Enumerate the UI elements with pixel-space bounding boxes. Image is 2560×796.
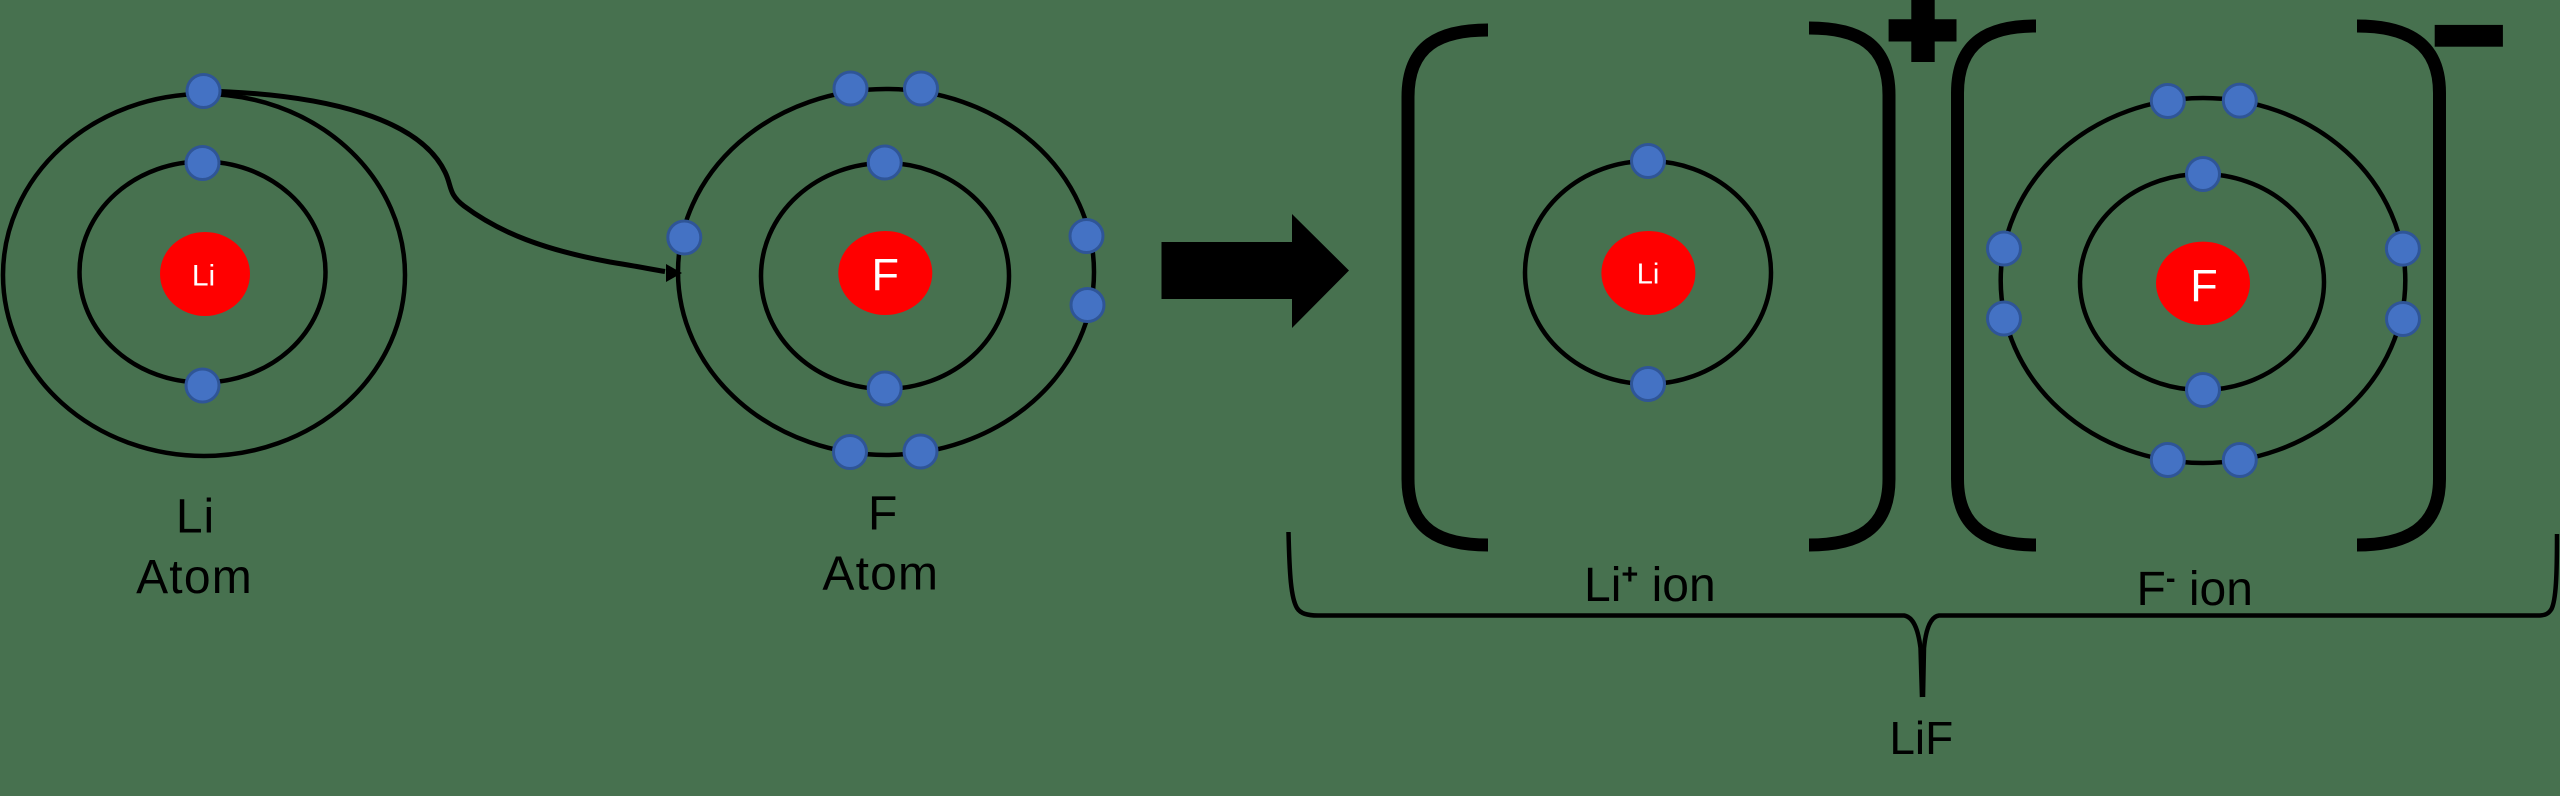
Li electron outer top xyxy=(187,75,220,108)
Li+ nucleus xyxy=(1601,231,1695,315)
F- electron outer bottom-left xyxy=(2151,444,2184,477)
F- electron inner bottom xyxy=(2187,374,2220,407)
svg-text:Li: Li xyxy=(176,491,215,544)
F- electron outer top-right xyxy=(2223,84,2256,117)
F nucleus xyxy=(838,231,932,315)
LiF underbrace xyxy=(1289,532,1923,697)
F electron outer bottom-left xyxy=(834,436,867,469)
F electron outer right-upper xyxy=(1070,220,1103,253)
F electron inner top xyxy=(868,146,901,179)
F- electron outer right-upper xyxy=(2386,232,2419,265)
svg-text:F: F xyxy=(2190,260,2218,311)
F- electron outer right-lower xyxy=(2387,303,2420,336)
Li+ electron top xyxy=(1632,145,1665,178)
Li+ electron bottom xyxy=(1632,368,1665,401)
svg-text:F- ion: F- ion xyxy=(2137,563,2253,616)
plus charge symbol xyxy=(1889,0,1957,62)
F- nucleus xyxy=(2156,242,2250,325)
Li electron inner bottom xyxy=(186,369,219,402)
svg-text:Li: Li xyxy=(1637,258,1660,290)
Li atom inner shell xyxy=(80,162,326,383)
svg-text:Li: Li xyxy=(192,260,215,293)
F- ion right bracket xyxy=(2357,26,2440,545)
F electron outer bottom-right xyxy=(904,435,937,468)
svg-text:Atom: Atom xyxy=(136,551,253,604)
F- ion outer shell xyxy=(2001,98,2406,463)
Li+ ion left bracket xyxy=(1408,30,1488,545)
F atom outer shell xyxy=(678,89,1094,455)
svg-text:F: F xyxy=(872,249,900,300)
minus charge symbol xyxy=(2435,25,2503,47)
electron transfer arrow xyxy=(204,91,665,272)
F- ion left bracket xyxy=(1958,26,2037,545)
F- electron outer top-left xyxy=(2151,85,2184,118)
Li nucleus xyxy=(160,232,250,316)
F electron outer top-right xyxy=(905,72,938,105)
F atom inner shell xyxy=(761,163,1009,389)
F electron outer top-left xyxy=(834,72,867,105)
svg-text:Li+ ion: Li+ ion xyxy=(1584,559,1716,612)
Li+ ion shell xyxy=(1525,161,1771,384)
reaction arrow xyxy=(1162,214,1350,328)
F electron outer right-lower xyxy=(1071,289,1104,322)
F- electron outer left-lower xyxy=(1988,302,2021,335)
LiF underbrace right half xyxy=(1923,534,2557,697)
svg-text:Atom: Atom xyxy=(822,548,939,601)
Li atom outer shell xyxy=(3,94,405,456)
F- electron outer left-upper xyxy=(1988,232,2021,265)
svg-text:LiF: LiF xyxy=(1889,712,1953,764)
svg-text:F: F xyxy=(868,488,897,541)
F- electron outer bottom-right xyxy=(2223,444,2256,477)
F- electron inner top xyxy=(2187,158,2220,191)
F electron outer left xyxy=(668,221,701,254)
F electron inner bottom xyxy=(868,372,901,405)
F- ion inner shell xyxy=(2080,174,2324,390)
Li electron inner top xyxy=(186,147,219,180)
Li+ ion right bracket xyxy=(1809,28,1889,545)
electron transfer arrowhead xyxy=(666,264,682,282)
